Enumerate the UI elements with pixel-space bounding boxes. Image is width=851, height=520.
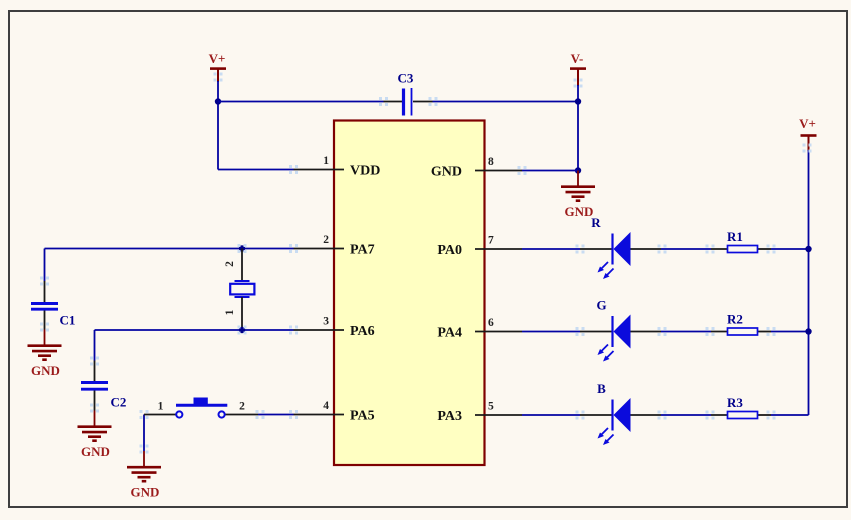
- svg-text:1: 1: [224, 309, 236, 315]
- svg-text:8: 8: [488, 156, 494, 168]
- svg-text:GND: GND: [31, 363, 60, 378]
- wire: [45, 244, 299, 253]
- wire: [522, 327, 585, 336]
- IC U1 body: [334, 121, 485, 466]
- svg-text:PA7: PA7: [350, 242, 375, 257]
- svg-text:GND: GND: [131, 485, 160, 500]
- pin 6 PA4: [437, 317, 522, 340]
- capacitor C2: [81, 357, 126, 413]
- wire: [767, 327, 809, 336]
- wire: [658, 411, 715, 420]
- svg-text:5: 5: [488, 401, 494, 413]
- ground: [78, 411, 112, 460]
- svg-text:2: 2: [224, 261, 236, 267]
- LED B: [580, 381, 661, 445]
- power V+ (right): [799, 116, 816, 151]
- wire: [94, 330, 96, 361]
- crystal Y1: [224, 249, 254, 331]
- LED R: [580, 215, 661, 279]
- svg-text:1: 1: [323, 155, 329, 167]
- wire: [218, 169, 294, 171]
- capacitor C3: [379, 71, 438, 116]
- wire: [658, 245, 715, 254]
- svg-text:2: 2: [323, 234, 329, 246]
- svg-text:V+: V+: [209, 51, 226, 66]
- wire: [95, 326, 299, 335]
- wire: [658, 327, 715, 336]
- svg-text:PA4: PA4: [437, 325, 462, 340]
- wire: [44, 249, 46, 282]
- svg-text:VDD: VDD: [350, 163, 380, 178]
- svg-text:V-: V-: [571, 51, 584, 66]
- junction: [215, 98, 221, 104]
- svg-text:C3: C3: [398, 71, 414, 86]
- wire: [767, 245, 809, 254]
- push button S1: [144, 398, 265, 420]
- wire: [433, 101, 579, 103]
- pin 7 PA0: [437, 235, 522, 258]
- wire: [522, 245, 585, 254]
- ground: [127, 451, 161, 500]
- power V+ (left): [209, 51, 226, 82]
- svg-text:2: 2: [239, 401, 245, 413]
- svg-text:7: 7: [488, 235, 494, 247]
- svg-text:R: R: [591, 215, 601, 230]
- svg-text:R1: R1: [727, 229, 743, 244]
- ground: [28, 330, 62, 379]
- resistor R2: [711, 312, 771, 336]
- pin 2 PA7: [289, 234, 375, 257]
- svg-text:4: 4: [323, 400, 329, 412]
- junction: [575, 98, 581, 104]
- capacitor C1: [31, 277, 75, 332]
- junction: [575, 167, 581, 173]
- svg-text:C1: C1: [60, 313, 76, 328]
- svg-text:GND: GND: [81, 444, 110, 459]
- svg-text:GND: GND: [565, 204, 594, 219]
- junction: [238, 244, 247, 253]
- resistor R3: [711, 395, 771, 419]
- wire: [518, 166, 579, 175]
- pin 5 PA3: [437, 401, 522, 424]
- pin 3 PA6: [289, 316, 375, 339]
- svg-text:PA6: PA6: [350, 324, 375, 339]
- svg-text:6: 6: [488, 317, 494, 329]
- junction: [238, 326, 247, 335]
- wire: [214, 73, 223, 170]
- wire: [803, 144, 812, 416]
- pin 8 GND: [431, 156, 522, 179]
- pin 4 PA5: [289, 400, 375, 423]
- wire: [218, 101, 384, 103]
- svg-text:1: 1: [158, 401, 164, 413]
- wire: [258, 410, 298, 419]
- svg-text:B: B: [597, 381, 606, 396]
- svg-text:R3: R3: [727, 395, 743, 410]
- LED G: [580, 298, 661, 362]
- resistor R1: [711, 229, 771, 253]
- ground: [561, 171, 595, 220]
- svg-text:GND: GND: [431, 164, 462, 179]
- svg-text:PA0: PA0: [437, 243, 462, 258]
- wire: [522, 411, 585, 420]
- junction: [805, 328, 811, 334]
- svg-text:V+: V+: [799, 116, 816, 131]
- svg-text:C2: C2: [111, 395, 127, 410]
- wire: [574, 79, 583, 171]
- svg-text:G: G: [596, 298, 606, 313]
- wire: [767, 411, 809, 420]
- svg-text:R2: R2: [727, 312, 743, 327]
- pin 1 VDD: [289, 155, 380, 178]
- wire: [140, 410, 149, 454]
- power V-: [570, 51, 586, 86]
- svg-text:PA5: PA5: [350, 408, 375, 423]
- svg-text:PA3: PA3: [437, 409, 462, 424]
- svg-text:3: 3: [323, 316, 329, 328]
- junction: [805, 246, 811, 252]
